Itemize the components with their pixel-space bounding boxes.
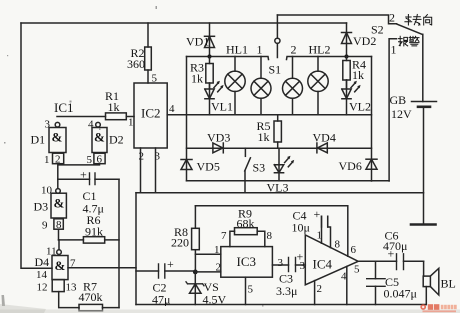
label 报警 (alarm) drawn strokes: [398, 36, 419, 46]
S2 contact 1 tick: [389, 39, 396, 181]
wire IC2 pin3 stub: [155, 148, 157, 193]
svg-text:1: 1: [128, 117, 134, 129]
svg-text:2: 2: [291, 43, 297, 57]
capacitor C1: [58, 173, 119, 185]
svg-text:1: 1: [44, 154, 50, 166]
svg-text:S1: S1: [269, 63, 282, 77]
svg-text:360: 360: [127, 57, 145, 71]
diode VD5: [181, 160, 192, 170]
wire D3 pin8 stub: [58, 229, 60, 240]
svg-text:D3: D3: [34, 200, 49, 214]
svg-text:VL2: VL2: [349, 100, 371, 114]
switch S1 blade: [276, 43, 278, 57]
scan artifact left smudge: [2, 295, 6, 306]
wire IC4 pin4 stub: [346, 267, 348, 305]
svg-text:9: 9: [42, 220, 48, 232]
speaker BL: [423, 261, 439, 304]
svg-text:+: +: [167, 257, 174, 271]
wire alarm frame left: [135, 193, 137, 305]
svg-text:2: 2: [216, 262, 222, 274]
wire S1 pole stub: [276, 15, 278, 38]
wire alarm feed bottom row: [187, 180, 390, 182]
svg-text:1: 1: [317, 230, 323, 242]
svg-text:VD6: VD6: [339, 159, 362, 173]
wire IC2 pin2 stub: [140, 148, 142, 193]
svg-text:D1: D1: [31, 133, 46, 147]
junction dot VD1/R3: [207, 54, 211, 58]
wire D4 pin12 to R7: [59, 292, 79, 308]
junction dot VD2/R4: [344, 54, 348, 58]
capacitor C2: [136, 264, 195, 278]
svg-text:1: 1: [391, 43, 397, 57]
wire lamp bus top left segment to S1 contact 1: [187, 57, 269, 60]
switch S2 blade: [397, 24, 423, 34]
capacitor C3: [272, 258, 305, 272]
wire D4 pin7 to frame: [68, 267, 136, 269]
svg-text:1k: 1k: [191, 72, 203, 86]
gate D3: [51, 189, 66, 231]
svg-text:GB: GB: [390, 93, 407, 107]
svg-text:VD4: VD4: [313, 131, 336, 145]
wire IC4 pin2 stub: [314, 281, 316, 305]
resistor R3: [206, 57, 213, 89]
wire C1 right down: [118, 179, 120, 307]
svg-text:3: 3: [45, 119, 51, 131]
wire S1 pole to S2 contact2: [277, 15, 396, 24]
svg-text:470k: 470k: [79, 290, 103, 304]
LED VL3: [274, 148, 294, 181]
svg-text:HL2: HL2: [309, 43, 331, 57]
scan specks: [4, 6, 264, 307]
svg-text:2: 2: [317, 283, 323, 295]
svg-text:10μ: 10μ: [292, 221, 310, 235]
svg-text:470μ: 470μ: [383, 239, 407, 253]
wire lamp frame right vertical: [371, 57, 373, 182]
wire IC3 pin1: [195, 253, 220, 255]
wire alarm frame bottom: [136, 304, 426, 306]
op IC2 box: [134, 83, 167, 148]
wire alarm frame top (negative rail): [136, 192, 424, 194]
svg-text:1k: 1k: [258, 130, 270, 144]
op-amp IC4 triangle: [305, 235, 358, 285]
wire S2 pole to battery +: [422, 34, 424, 101]
resistor R2: [145, 23, 152, 83]
svg-text:12V: 12V: [391, 107, 412, 121]
svg-text:5: 5: [152, 73, 158, 85]
svg-text:2: 2: [389, 11, 395, 25]
svg-text:1: 1: [257, 43, 263, 57]
svg-text:1k: 1k: [108, 100, 120, 114]
svg-text:4: 4: [88, 119, 94, 131]
svg-text:HL1: HL1: [226, 43, 248, 57]
wire IC3 pin5 stub: [245, 277, 247, 304]
svg-text:11: 11: [46, 246, 57, 258]
svg-text:8: 8: [267, 230, 273, 242]
lamp HL1b: [251, 57, 271, 115]
svg-text:&: &: [55, 258, 66, 273]
LED VL2: [342, 80, 361, 115]
diode VD6: [366, 159, 377, 169]
capacitor C4: [322, 216, 331, 247]
svg-text:1k: 1k: [352, 68, 364, 82]
svg-text:91k: 91k: [85, 225, 103, 239]
svg-text:4: 4: [169, 103, 175, 115]
svg-text:IC3: IC3: [237, 254, 257, 269]
svg-text:VD2: VD2: [353, 34, 376, 48]
svg-text:VL1: VL1: [211, 100, 233, 114]
battery GB negative plate: [418, 106, 430, 109]
gate D4: [52, 250, 68, 292]
svg-text:&: &: [94, 130, 105, 145]
svg-text:3: 3: [278, 257, 284, 269]
gate D2: [92, 122, 107, 165]
zener VS: [186, 272, 204, 305]
scan artifact bottom band: [0, 310, 460, 313]
svg-text:0.047μ: 0.047μ: [384, 287, 417, 301]
svg-text:10: 10: [41, 185, 53, 197]
svg-text:12: 12: [37, 282, 48, 294]
svg-text:D2: D2: [109, 133, 124, 147]
LED VL1: [205, 81, 224, 115]
resistor R7: [79, 304, 119, 310]
wire lamp frame left vertical: [186, 57, 188, 181]
resistor R4: [343, 57, 350, 89]
svg-text:47μ: 47μ: [152, 293, 170, 307]
label 转向 (turn) drawn strokes: [405, 14, 432, 25]
wire lamp bus top right segment from S1 contact 2: [287, 57, 372, 60]
svg-text:14: 14: [36, 269, 48, 281]
wire top +12V rail: [21, 22, 347, 24]
resistor R8: [192, 206, 200, 272]
svg-text:+: +: [314, 207, 321, 221]
op IC3 box: [221, 247, 273, 278]
lamp HL1a: [225, 57, 245, 115]
svg-text:VD5: VD5: [197, 160, 220, 174]
switch S3: [245, 148, 251, 193]
capacitor C5: [367, 261, 385, 304]
resistor R5: [274, 115, 281, 148]
svg-text:IC4: IC4: [313, 257, 333, 272]
svg-text:4.5V: 4.5V: [203, 293, 227, 307]
capacitor C6: [397, 254, 404, 270]
svg-text:8: 8: [335, 239, 341, 251]
switch S1 pole circle: [275, 38, 280, 43]
diode VD2: [342, 23, 352, 57]
resistor R1: [57, 113, 134, 120]
svg-text:220: 220: [171, 236, 189, 250]
svg-text:1: 1: [214, 244, 220, 256]
svg-text:+: +: [80, 168, 87, 182]
resistor R6: [59, 237, 120, 243]
wire lamp bottom bus from IC2 pin4: [167, 114, 371, 116]
svg-text:S3: S3: [253, 161, 266, 175]
wire R8 top supply row to IC4 pin6: [195, 206, 347, 256]
svg-text:7: 7: [221, 230, 227, 242]
watermark logo: [420, 304, 456, 312]
wire left rail to D4 pin14: [21, 23, 52, 268]
svg-text:&: &: [54, 196, 65, 211]
battery GB positive plate: [412, 101, 437, 103]
wire D1-D2 inputs join: [58, 164, 100, 189]
svg-text:68k: 68k: [237, 217, 255, 231]
wire battery - down: [423, 107, 425, 225]
svg-text:5: 5: [354, 264, 360, 276]
resistor R9: [230, 228, 265, 247]
gate D1: [49, 122, 66, 165]
diode VD3: [213, 143, 223, 153]
wire IC3 pin2: [195, 271, 221, 273]
wire IC4 output: [358, 260, 423, 262]
svg-text:IC2: IC2: [141, 106, 161, 121]
diode VD4: [317, 143, 327, 153]
wire VD3/VD4 row: [187, 147, 372, 149]
diode VD1: [205, 23, 215, 57]
svg-text:VD3: VD3: [207, 131, 230, 145]
svg-text:6: 6: [351, 244, 357, 256]
svg-text:BL: BL: [441, 277, 456, 291]
wire D4 pin11 stub: [58, 240, 60, 250]
svg-text:13: 13: [66, 282, 78, 294]
svg-text:5: 5: [248, 284, 254, 296]
ground bar terminal: [411, 223, 436, 226]
junction dot VS node: [193, 270, 198, 275]
svg-text:&: &: [52, 130, 63, 145]
svg-text:VD1: VD1: [186, 35, 209, 49]
lamp HL2a: [283, 57, 303, 115]
lamp HL2b: [308, 57, 328, 115]
svg-text:3.3μ: 3.3μ: [276, 284, 297, 298]
